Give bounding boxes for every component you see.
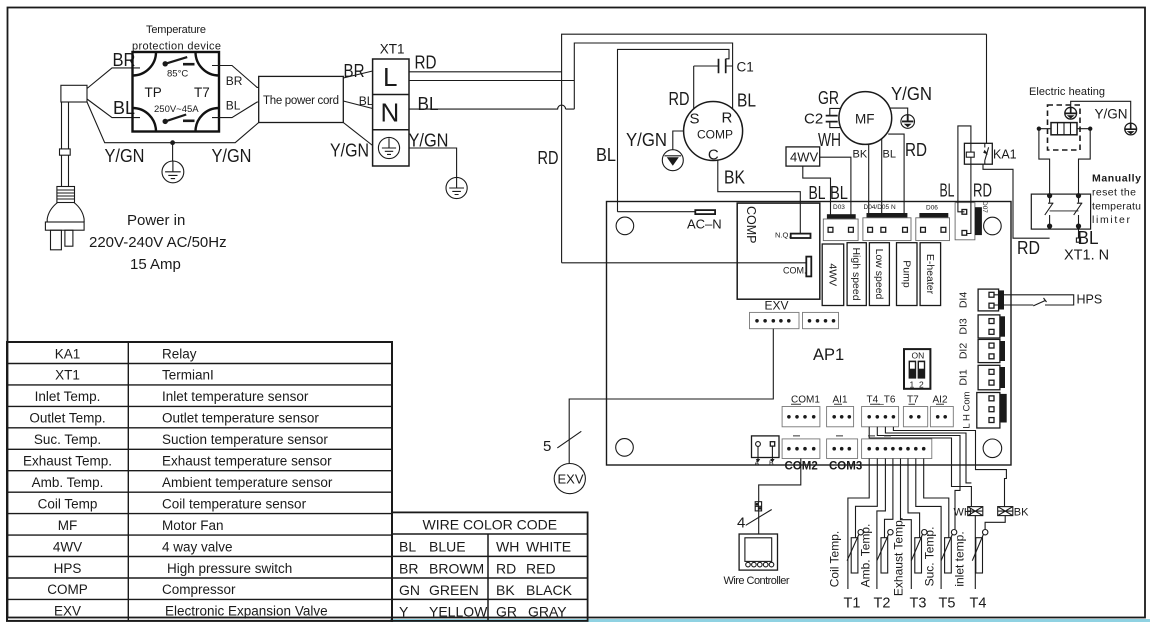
wire EXV to valve (569, 329, 773, 464)
sensor wire p2 (856, 459, 878, 538)
connector T4_T6 (862, 395, 899, 427)
sensor T2 (877, 530, 893, 574)
svg-text:GRAY: GRAY (528, 604, 567, 620)
svg-text:RED: RED (526, 561, 556, 577)
svg-text:Inlet Temp.: Inlet Temp. (35, 389, 101, 404)
wire MF RD (888, 134, 904, 227)
compressor COMP (684, 102, 743, 164)
svg-text:BL: BL (737, 90, 756, 111)
connector AI2 (930, 395, 953, 427)
svg-text:Y/GN: Y/GN (891, 83, 932, 104)
svg-text:MF: MF (855, 112, 875, 127)
callout 5 (557, 431, 581, 448)
svg-text:BL: BL (1078, 227, 1099, 248)
XT1 earth symbol (378, 137, 399, 158)
sensor wire p6 (908, 459, 920, 538)
relay Low speed (869, 243, 889, 306)
EXV connector 1 (750, 312, 800, 328)
connector DI4 (958, 289, 1005, 311)
ground G3 (662, 150, 683, 171)
wire BR cord to XT1 (343, 71, 372, 78)
T4_T6 harness w4 (893, 427, 1006, 507)
wire RD riser (562, 34, 987, 263)
N.Q. terminal bar (791, 234, 811, 238)
legend table (7, 342, 392, 621)
wire YGN cord to XT1 (343, 123, 372, 146)
svg-text:BLACK: BLACK (526, 582, 573, 598)
svg-text:Suc. Temp.: Suc. Temp. (34, 432, 101, 447)
svg-text:Y/GN: Y/GN (212, 145, 252, 166)
svg-text:85°C: 85°C (167, 69, 188, 80)
svg-text:C1: C1 (737, 60, 754, 75)
wire COM2 to controller (759, 459, 801, 535)
svg-text:HPS: HPS (1077, 293, 1103, 307)
svg-text:WHITE: WHITE (526, 539, 571, 555)
svg-text:D07: D07 (981, 201, 988, 213)
wire AC-N riser (618, 49, 730, 211)
svg-text:Coil temperature sensor: Coil temperature sensor (162, 496, 307, 511)
svg-text:1: 1 (910, 380, 915, 390)
ground G2 (446, 177, 467, 198)
DIP switch ON (904, 349, 930, 389)
svg-text:YELLOW: YELLOW (429, 604, 488, 620)
wire AC-N lead (618, 211, 696, 213)
wire BL from XT1 N with hop (409, 105, 574, 109)
fuse WH (968, 507, 983, 516)
svg-text:L H Com: L H Com (962, 391, 973, 428)
wire BL riser to C1 (574, 43, 732, 109)
svg-text:TP: TP (145, 85, 162, 100)
svg-text:Suction temperature sensor: Suction temperature sensor (162, 432, 328, 447)
connector label ticks (791, 404, 944, 436)
svg-text:Coil Temp.: Coil Temp. (828, 531, 842, 587)
svg-text:COMP: COMP (697, 128, 733, 142)
svg-text:High speed: High speed (850, 247, 862, 300)
svg-text:Exhaust temperature sensor: Exhaust temperature sensor (162, 454, 332, 469)
sensor wire p1 (848, 459, 869, 590)
connector T-row long (862, 439, 932, 459)
svg-text:WH: WH (954, 507, 972, 519)
wire MF BK (868, 144, 870, 227)
svg-text:BR: BR (226, 74, 243, 88)
svg-text:BL: BL (226, 99, 241, 113)
svg-text:Wire Controller: Wire Controller (724, 575, 790, 587)
svg-text:RD: RD (538, 147, 559, 168)
svg-text:Y/GN: Y/GN (1095, 107, 1128, 122)
AC-N terminal bar (695, 210, 715, 214)
T4_T6 harness w3 (885, 427, 971, 483)
svg-text:BR: BR (399, 561, 418, 577)
T4_T6 harness w2 (877, 427, 960, 529)
svg-text:GREEN: GREEN (429, 582, 479, 598)
connector DI2 (958, 339, 1006, 362)
svg-text:BL: BL (940, 180, 955, 201)
motor fan MF (839, 92, 892, 145)
svg-text:S: S (690, 111, 700, 128)
junction dot (170, 140, 175, 145)
svg-text:KA1: KA1 (993, 148, 1017, 162)
svg-text:AC–N: AC–N (687, 217, 722, 232)
svg-text:XT1: XT1 (55, 368, 80, 383)
ground G1 (162, 161, 184, 183)
connector D04/D05 N (863, 204, 911, 241)
svg-text:Y/GN: Y/GN (105, 145, 145, 166)
wire C to relay NO (718, 160, 801, 234)
svg-text:Compressor: Compressor (162, 582, 236, 597)
svg-text:HPS: HPS (54, 561, 82, 576)
connector DI1 (958, 365, 1006, 390)
PCB board AP1 outline (607, 202, 1012, 466)
connector D07 (955, 201, 988, 240)
svg-text:220V-240V AC/50Hz: 220V-240V AC/50Hz (89, 234, 227, 251)
limiter BL stub (1078, 226, 1080, 238)
svg-text:Pump: Pump (900, 260, 912, 288)
svg-text:Power in: Power in (127, 212, 185, 229)
svg-text:N: N (381, 98, 400, 128)
svg-text:Outlet Temp.: Outlet Temp. (29, 411, 105, 426)
svg-text:XT1: XT1 (380, 42, 405, 57)
svg-text:EXV: EXV (765, 299, 789, 313)
wire color code texts (399, 517, 573, 620)
connector D06 (916, 205, 950, 241)
wire L second to C1 riser (409, 80, 574, 82)
svg-text:BL: BL (359, 94, 374, 108)
svg-text:BLUE: BLUE (429, 539, 466, 555)
svg-text:250V~45A: 250V~45A (154, 104, 199, 115)
svg-text:Exhaust Temp.: Exhaust Temp. (892, 517, 906, 596)
ground G4 screw (901, 115, 915, 129)
relay COMP box (737, 203, 820, 299)
D07 coil loop (958, 126, 971, 234)
svg-text:T3: T3 (910, 596, 927, 612)
heater element (1051, 123, 1077, 135)
svg-text:Y: Y (399, 604, 409, 620)
wire BL device to cord box (212, 102, 259, 118)
wire color code table (392, 512, 588, 621)
mounting hole TL (616, 217, 634, 235)
svg-text:Inlet temperature sensor: Inlet temperature sensor (162, 389, 309, 404)
svg-text:Suc. Temp.: Suc. Temp. (923, 527, 937, 587)
switch T7 (163, 115, 195, 125)
svg-text:RD: RD (973, 180, 992, 201)
svg-text:Electronic Expansion Valve: Electronic Expansion Valve (165, 604, 328, 619)
svg-text:BL: BL (418, 93, 439, 114)
svg-text:EXV: EXV (54, 604, 81, 619)
wire BR plug to device (87, 68, 140, 89)
svg-text:D04/D05 N: D04/D05 N (864, 204, 896, 211)
svg-text:BR: BR (344, 60, 365, 81)
svg-text:4WV: 4WV (53, 539, 82, 554)
wire BL plug to device (87, 99, 140, 118)
svg-text:T5: T5 (939, 596, 956, 612)
svg-text:Ambient temperature sensor: Ambient temperature sensor (162, 475, 333, 490)
svg-text:protection device: protection device (132, 41, 221, 53)
svg-text:T1: T1 (844, 596, 861, 612)
svg-text:BL: BL (596, 144, 616, 165)
svg-text:RD: RD (905, 139, 927, 160)
svg-text:inlet temp.: inlet temp. (953, 531, 967, 586)
svg-text:The power cord: The power cord (263, 95, 339, 107)
svg-text:temperatu: temperatu (1092, 201, 1141, 213)
svg-text:COMP: COMP (744, 206, 758, 244)
wire RD from XT1 L (409, 71, 562, 73)
svg-text:B: B (769, 461, 774, 468)
connector AI1 (827, 395, 854, 427)
T4_T6 harness w1 (869, 427, 971, 507)
power cord (60, 102, 71, 187)
wire MF BL (881, 139, 883, 228)
HPS loop wires (995, 295, 1074, 305)
svg-text:WH: WH (818, 129, 841, 150)
wire C1 to S (693, 66, 695, 109)
sensor T1 (847, 530, 863, 574)
svg-text:RD: RD (669, 88, 690, 109)
svg-text:RD: RD (496, 561, 516, 577)
svg-text:N.Q.: N.Q. (775, 231, 790, 240)
svg-text:RD: RD (415, 52, 437, 73)
mounting hole TR (984, 217, 1002, 235)
svg-text:E-heater: E-heater (924, 254, 936, 295)
mounting hole BR (983, 439, 1002, 458)
svg-text:GR: GR (818, 87, 839, 108)
svg-text:Relay: Relay (162, 346, 197, 361)
svg-text:BL: BL (830, 182, 848, 203)
svg-text:D06: D06 (926, 205, 938, 212)
svg-text:Y/GN: Y/GN (626, 129, 667, 150)
relay Pump (897, 243, 918, 306)
svg-text:T2: T2 (874, 596, 891, 612)
svg-text:COM.: COM. (783, 266, 807, 276)
svg-text:WIRE COLOR CODE: WIRE COLOR CODE (423, 517, 558, 533)
sensor wire p7 (916, 459, 941, 590)
limiter switch 2 (1074, 194, 1083, 229)
svg-text:4WV: 4WV (827, 263, 839, 286)
relay High speed (847, 243, 866, 306)
connector L H Com (962, 391, 1007, 428)
connector T7 (903, 395, 927, 427)
wire heater ground to YGN screw (1071, 101, 1131, 123)
svg-text:Manually: Manually (1092, 173, 1141, 185)
svg-text:RD: RD (1017, 237, 1040, 258)
svg-text:COM3: COM3 (829, 461, 862, 473)
svg-text:GR: GR (496, 604, 517, 620)
temperature limiter box (1031, 194, 1090, 229)
svg-text:Outlet temperature sensor: Outlet temperature sensor (162, 411, 319, 426)
corner arcs (133, 52, 220, 132)
svg-text:limiter: limiter (1092, 214, 1131, 226)
sensor T4 (972, 530, 988, 574)
sensor T5 (941, 530, 957, 574)
limiter link (1050, 210, 1079, 212)
svg-text:ON: ON (912, 351, 925, 361)
wire MF ground (890, 108, 908, 115)
wire WH to T4 (974, 516, 976, 589)
svg-text:Motor Fan: Motor Fan (162, 518, 224, 533)
svg-text:MF: MF (58, 518, 78, 533)
svg-text:BL: BL (809, 182, 826, 203)
heater lead right (1077, 129, 1090, 196)
EXV valve circle (554, 464, 585, 494)
bottom cyan strip (390, 619, 1150, 622)
heater ground screw 2 (1125, 123, 1137, 135)
COM terminal bar (806, 257, 811, 277)
svg-text:AP1: AP1 (813, 346, 844, 364)
switch TP (163, 57, 195, 66)
connector DI3 (958, 315, 1006, 338)
svg-text:WH: WH (496, 539, 519, 555)
4WV valve box (786, 147, 820, 166)
svg-text:BL: BL (399, 539, 416, 555)
svg-text:High pressure switch: High pressure switch (167, 561, 292, 576)
svg-text:BK: BK (496, 582, 515, 598)
svg-text:DI3: DI3 (958, 318, 970, 335)
svg-text:TermianI: TermianI (162, 368, 214, 383)
svg-text:Y/GN: Y/GN (409, 130, 449, 151)
sensor wire p3 (877, 459, 886, 590)
svg-text:BROWM: BROWM (429, 561, 484, 577)
controller plug symbol (755, 502, 761, 511)
wire 4WV lead1 (803, 166, 831, 227)
wire controller (739, 534, 777, 570)
connector D03 (823, 204, 858, 241)
svg-text:A: A (755, 461, 760, 468)
connector A B (752, 436, 780, 468)
svg-text:L: L (383, 62, 397, 92)
svg-text:2: 2 (919, 380, 924, 390)
connector COM2 (782, 439, 820, 473)
fuse BK (998, 507, 1013, 516)
cord entry box (61, 85, 87, 102)
svg-text:4: 4 (737, 515, 745, 532)
legend texts (23, 346, 333, 618)
svg-text:reset the: reset the (1092, 187, 1136, 199)
svg-text:Exhaust Temp.: Exhaust Temp. (23, 454, 112, 469)
relay KA1 (964, 143, 992, 164)
wire XT1 ground to G2 (409, 148, 457, 177)
svg-text:4WV: 4WV (790, 150, 819, 165)
svg-text:C2: C2 (804, 111, 823, 128)
svg-text:BK: BK (853, 149, 868, 161)
svg-text:R: R (722, 110, 733, 127)
svg-text:DI4: DI4 (958, 292, 970, 309)
wire KA1 out to limiter (983, 164, 1050, 238)
heater dashed enclosure (1048, 105, 1081, 150)
svg-text:Y/GN: Y/GN (330, 140, 369, 161)
wire comp ground stub (673, 131, 684, 150)
svg-text:15 Amp: 15 Amp (130, 256, 181, 273)
svg-text:Amb. Temp.: Amb. Temp. (859, 524, 873, 588)
EXV connector 2 (803, 312, 839, 328)
svg-text:4 way valve: 4 way valve (162, 539, 233, 554)
svg-text:EXV: EXV (558, 472, 584, 487)
sensor T3 (911, 530, 927, 574)
HPS switch blade (1033, 298, 1046, 306)
mounting hole BL (616, 439, 634, 457)
svg-text:5: 5 (543, 438, 551, 455)
sensor wire p8 (924, 459, 949, 538)
callout 4 (746, 510, 772, 526)
svg-text:DI2: DI2 (958, 343, 970, 360)
limiter switch 1 (1045, 194, 1054, 229)
connector COM1 (782, 395, 820, 427)
svg-text:COMP: COMP (47, 582, 88, 597)
svg-text:T7: T7 (194, 85, 210, 100)
wire BL cord to XT1 (343, 101, 372, 109)
wire RD to COM bar (562, 262, 807, 264)
terminal XT1 (373, 59, 409, 166)
sensor wire p5 (901, 459, 912, 590)
svg-text:BL: BL (883, 149, 896, 161)
power plug (45, 187, 84, 250)
heater lead left (1039, 129, 1051, 196)
wire Y/GN plug run (87, 102, 259, 143)
capacitor C2 (826, 108, 841, 127)
svg-text:BK: BK (724, 167, 746, 188)
svg-text:Temperature: Temperature (146, 24, 206, 36)
relay 4WV (822, 244, 844, 306)
svg-text:KA1: KA1 (55, 346, 81, 361)
svg-text:GN: GN (399, 582, 420, 598)
svg-text:BK: BK (1014, 507, 1029, 519)
wire 4WV lead2 (820, 157, 851, 227)
svg-text:XT1. N: XT1. N (1064, 248, 1109, 264)
svg-text:Coil Temp: Coil Temp (38, 496, 98, 511)
heater ground screw 1 (1065, 107, 1077, 119)
svg-text:DI1: DI1 (958, 369, 970, 386)
relay E-heater (920, 243, 941, 306)
svg-text:T4: T4 (970, 596, 987, 612)
sensor wire p4 (885, 459, 893, 538)
svg-text:D03: D03 (833, 204, 845, 211)
wire BK to T4 (985, 516, 1005, 530)
svg-text:Low speed: Low speed (873, 249, 885, 300)
connector COM3 (827, 439, 863, 473)
the power cord box (259, 76, 344, 122)
temperature protection device box (133, 52, 220, 132)
svg-text:Amb. Temp.: Amb. Temp. (32, 475, 104, 490)
svg-text:Electric heating: Electric heating (1029, 86, 1105, 98)
capacitor C1 (694, 59, 733, 74)
wire RD into KA1 (986, 34, 988, 143)
wire BR device to cord box (212, 66, 259, 88)
